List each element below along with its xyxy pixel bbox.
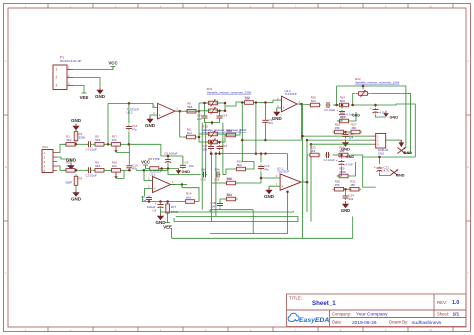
svg-text:+: + (154, 187, 156, 191)
svg-text:A: A (5, 59, 7, 63)
svg-text:330K: 330K (339, 170, 346, 174)
svg-text:Variable_resistor_nolensep_230: Variable_resistor_nolensep_230k (207, 90, 252, 94)
svg-text:104: 104 (339, 149, 344, 153)
svg-text:U1.2: U1.2 (127, 111, 133, 115)
svg-text:C2: C2 (86, 173, 90, 177)
svg-text:-: - (154, 179, 155, 183)
svg-text:224: 224 (349, 197, 354, 201)
svg-text:C16: C16 (214, 178, 220, 182)
svg-text:CN1: CN1 (42, 145, 48, 149)
svg-text:4.7u: 4.7u (384, 169, 390, 173)
svg-text:47p: 47p (264, 167, 269, 171)
svg-text:10uF: 10uF (329, 108, 336, 112)
svg-text:4.7uF: 4.7uF (346, 162, 354, 166)
svg-text:270K: 270K (153, 157, 160, 161)
svg-text:184: 184 (215, 168, 220, 172)
svg-text:GND: GND (264, 194, 275, 199)
svg-text:VCC: VCC (108, 61, 118, 66)
svg-text:R15: R15 (227, 176, 233, 180)
svg-text:Drawn By:: Drawn By: (389, 320, 408, 325)
svg-text:5K6: 5K6 (340, 99, 346, 103)
svg-text:EasyEDA: EasyEDA (299, 317, 329, 324)
svg-text:+: + (159, 113, 161, 117)
svg-text:5K6: 5K6 (237, 163, 243, 167)
svg-text:5K6: 5K6 (187, 105, 193, 109)
svg-text:C8: C8 (164, 151, 168, 155)
svg-text:+: + (336, 159, 338, 163)
svg-text:GND: GND (95, 94, 106, 99)
svg-text:A: A (467, 59, 469, 63)
svg-text:B: B (5, 165, 7, 169)
svg-text:CN2: CN2 (378, 151, 384, 155)
svg-text:R4: R4 (79, 177, 83, 181)
svg-text:1K2: 1K2 (187, 131, 193, 135)
svg-text:C: C (467, 271, 469, 275)
svg-text:-: - (281, 176, 282, 180)
svg-text:47p: 47p (132, 127, 137, 131)
svg-text:104: 104 (112, 164, 117, 168)
svg-text:GND: GND (182, 170, 191, 174)
svg-text:Company:: Company: (332, 311, 351, 316)
svg-text:C4: C4 (324, 158, 328, 162)
svg-text:15K: 15K (351, 126, 356, 130)
svg-text:+: + (283, 106, 285, 110)
svg-text:104: 104 (189, 164, 194, 168)
svg-text:5K6: 5K6 (95, 164, 101, 168)
svg-text:1K2: 1K2 (311, 99, 317, 103)
svg-text:10: 10 (429, 4, 433, 8)
svg-text:Your Company: Your Company (356, 312, 388, 318)
svg-text:Sheet:: Sheet: (437, 311, 449, 316)
svg-text:330P: 330P (65, 180, 72, 184)
svg-text:R15: R15 (227, 128, 233, 132)
svg-text:Date:: Date: (332, 320, 342, 325)
svg-text:GND: GND (341, 208, 350, 213)
svg-text:R21: R21 (227, 192, 233, 196)
svg-text:15K: 15K (335, 126, 340, 130)
svg-text:Sheet_1: Sheet_1 (312, 300, 336, 307)
svg-text:15K: 15K (350, 183, 355, 187)
svg-text:TITLE:: TITLE: (289, 296, 302, 301)
svg-text:1: 1 (56, 68, 58, 72)
svg-text:330K: 330K (79, 135, 86, 139)
svg-text:+: + (336, 109, 338, 113)
svg-text:3: 3 (56, 84, 58, 88)
svg-text:GND: GND (346, 155, 354, 159)
svg-text:2019-08-26: 2019-08-26 (352, 320, 377, 326)
svg-text:WJ124-3.81-3P: WJ124-3.81-3P (60, 59, 82, 63)
svg-text:+: + (374, 165, 376, 169)
svg-text:C3: C3 (324, 108, 328, 112)
svg-text:1/1: 1/1 (453, 312, 460, 318)
svg-text:184: 184 (201, 168, 206, 172)
svg-text:10: 10 (429, 328, 433, 332)
svg-text:GND: GND (71, 196, 82, 201)
svg-text:C14: C14 (222, 114, 228, 118)
svg-text:+: + (370, 107, 372, 111)
svg-text:R14: R14 (186, 192, 192, 196)
svg-text:C4: C4 (153, 209, 157, 213)
svg-text:C1: C1 (86, 147, 90, 151)
svg-text:VEE: VEE (80, 95, 89, 100)
svg-text:sudhashinevs: sudhashinevs (412, 320, 442, 326)
svg-text:B: B (467, 165, 469, 169)
svg-text:VEE: VEE (163, 224, 172, 229)
svg-text:47p: 47p (268, 121, 273, 125)
svg-text:U1.1: U1.1 (150, 172, 156, 176)
svg-text:GND: GND (145, 123, 156, 128)
svg-text:GND: GND (396, 174, 405, 178)
svg-text:5K6: 5K6 (95, 138, 101, 142)
svg-text:+: + (281, 185, 283, 189)
svg-text:C15: C15 (222, 144, 228, 148)
svg-text:2: 2 (56, 76, 58, 80)
svg-text:104: 104 (202, 147, 207, 151)
svg-text:3K3: 3K3 (66, 164, 72, 168)
svg-text:-: - (159, 106, 160, 110)
svg-text:3K3: 3K3 (66, 138, 72, 142)
svg-text:TL072CP: TL072CP (277, 170, 289, 174)
svg-text:10uF: 10uF (90, 147, 97, 151)
svg-text:GND: GND (390, 116, 399, 120)
svg-text:10uF: 10uF (90, 173, 97, 177)
svg-text:100uF: 100uF (169, 151, 178, 155)
svg-text:1K2: 1K2 (310, 149, 316, 153)
svg-text:C15: C15 (201, 178, 207, 182)
svg-text:Variable_resistor_nolensep_100: Variable_resistor_nolensep_100k (355, 80, 400, 84)
svg-text:1.0: 1.0 (452, 300, 459, 306)
svg-text:104: 104 (210, 204, 215, 208)
svg-text:REV:: REV: (437, 300, 447, 305)
svg-text:104: 104 (112, 138, 117, 142)
svg-text:GND: GND (404, 151, 413, 155)
svg-text:10uF: 10uF (328, 158, 335, 162)
svg-text:330K: 330K (340, 115, 347, 119)
svg-text:TL072CP: TL072CP (285, 92, 297, 96)
svg-text:2K7: 2K7 (171, 205, 177, 209)
svg-text:1K5: 1K5 (186, 195, 192, 199)
svg-text:15K: 15K (335, 183, 340, 187)
svg-text:GND: GND (71, 118, 82, 123)
svg-text:C: C (5, 271, 7, 275)
svg-text:-: - (283, 98, 284, 102)
svg-text:R13: R13 (245, 95, 251, 99)
